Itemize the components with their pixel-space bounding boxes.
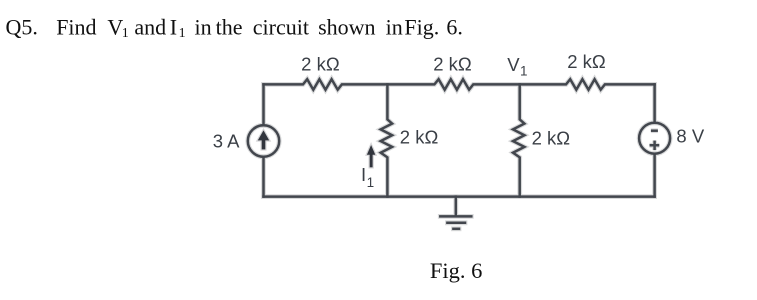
svg-text:V: V xyxy=(507,54,520,75)
svg-text:FindV1andI1inthecircuitshownin: FindV1andI1inthecircuitshowninFig.6. xyxy=(56,14,463,41)
svg-text:2 kΩ: 2 kΩ xyxy=(301,54,340,75)
svg-text:I: I xyxy=(361,164,366,185)
svg-text:Fig. 6: Fig. 6 xyxy=(430,258,483,283)
svg-text:2 kΩ: 2 kΩ xyxy=(532,128,571,149)
svg-text:1: 1 xyxy=(520,64,528,79)
svg-text:1: 1 xyxy=(367,175,375,190)
svg-text:2 kΩ: 2 kΩ xyxy=(433,54,472,75)
svg-text:8 V: 8 V xyxy=(676,126,704,147)
svg-text:3 A: 3 A xyxy=(213,131,240,152)
svg-text:2 kΩ: 2 kΩ xyxy=(400,126,439,147)
svg-text:Q5.: Q5. xyxy=(6,14,38,39)
svg-text:2 kΩ: 2 kΩ xyxy=(567,51,606,72)
